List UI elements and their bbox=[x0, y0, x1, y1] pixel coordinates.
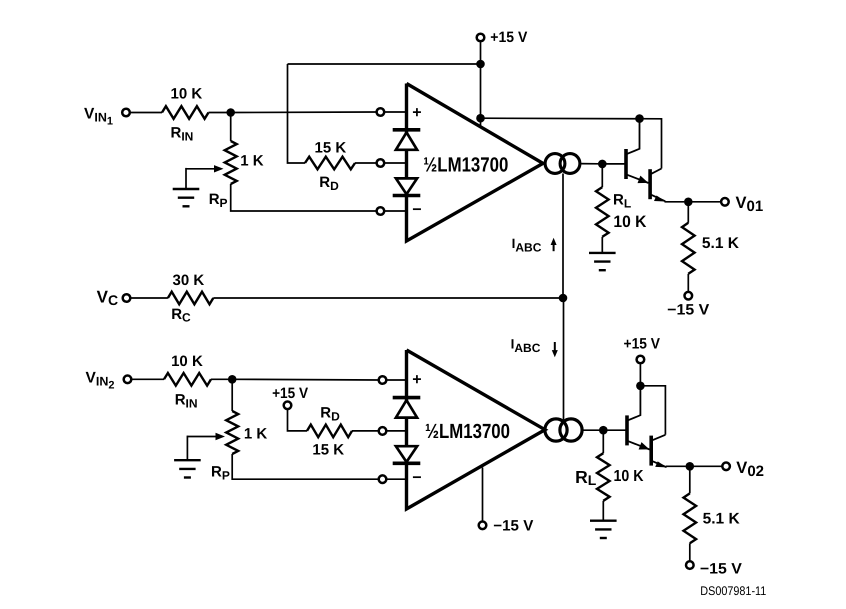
svg-text:−: − bbox=[412, 202, 421, 219]
wire node C1 to R5 ch1 bbox=[687, 202, 689, 223]
svg-text:10 K: 10 K bbox=[171, 86, 203, 103]
resistor 5.1K ch1 bbox=[682, 223, 695, 274]
resistor RD2 15K bbox=[307, 425, 352, 438]
input terminal VIN1 bbox=[122, 109, 130, 117]
potentiometer RP2 1K bbox=[226, 411, 238, 454]
svg-text:15 K: 15 K bbox=[312, 442, 344, 459]
arrow IABC up bbox=[553, 243, 555, 251]
node B1 junction bbox=[598, 160, 607, 169]
wire node C1 to V01 bbox=[688, 201, 721, 203]
wire node C2 to V02 bbox=[690, 465, 723, 467]
ground RP1 bbox=[173, 188, 200, 190]
linearizing diodes D1 D2 ch1 bbox=[393, 128, 421, 132]
terminal V02 bbox=[722, 463, 730, 471]
linearizing diodes D3 D4 ch2 bbox=[393, 396, 421, 400]
wire - terminal to U2 bbox=[386, 478, 406, 480]
node B2 junction bbox=[599, 426, 608, 435]
wire diode bias terminal to U2 bbox=[386, 430, 406, 432]
wire + terminal to U1 bbox=[384, 111, 406, 113]
wire RL2 to ground bbox=[602, 501, 604, 521]
resistor RL2 10K bbox=[597, 453, 610, 501]
wire mirror to node B1 bbox=[580, 163, 599, 165]
node VC junction bbox=[559, 294, 568, 303]
node C1 junction bbox=[684, 198, 693, 207]
svg-text:1 K: 1 K bbox=[244, 426, 268, 443]
wire node B1 to RL1 bbox=[601, 164, 603, 187]
svg-text:+15 V: +15 V bbox=[624, 336, 661, 353]
svg-text:DS007981-11: DS007981-11 bbox=[700, 584, 766, 598]
wire +15V down bbox=[480, 41, 482, 64]
potentiometer RP1 1K bbox=[225, 141, 237, 184]
resistor RC 30K bbox=[168, 292, 213, 305]
ground RL1 bbox=[589, 252, 616, 254]
wire collector rail ch2 bbox=[640, 386, 665, 435]
svg-text:+: + bbox=[412, 105, 421, 122]
wire node B2 to RL2 bbox=[602, 430, 604, 453]
ground RL2 bbox=[590, 520, 617, 522]
wire Q4 emitter to node C2 bbox=[666, 465, 686, 467]
wire diode bias terminal to U1 bbox=[384, 162, 406, 164]
wire IABC node to mirror2 bbox=[563, 298, 565, 424]
wire node C2 to R5 ch2 bbox=[689, 466, 691, 493]
wire +15V rail left bbox=[288, 63, 481, 65]
svg-text:10 K: 10 K bbox=[614, 468, 644, 485]
node V+ collector rail bbox=[476, 114, 485, 123]
svg-text:5.1 K: 5.1 K bbox=[702, 235, 740, 252]
current mirror U2 output bbox=[545, 419, 567, 441]
wire RC to IABC node bbox=[213, 297, 563, 299]
wiper wire to ground RP2 bbox=[186, 436, 188, 461]
ground RP2 bbox=[174, 459, 201, 461]
terminal + input U2 bbox=[379, 376, 387, 384]
svg-text:10 K: 10 K bbox=[613, 213, 646, 231]
wire collector rail ch1 bbox=[481, 118, 662, 168]
terminal - input U2 bbox=[379, 475, 387, 483]
terminal +15V bias ch2 bbox=[284, 402, 292, 410]
terminal V01 bbox=[721, 198, 729, 206]
wire RL1 to ground bbox=[601, 237, 603, 253]
terminal diode bias U1 bbox=[377, 159, 385, 167]
transistor Q1 ch1 bbox=[624, 149, 628, 179]
node +15V rail junction bbox=[476, 60, 485, 69]
wire node B2 to Q3 base bbox=[603, 429, 625, 431]
wire - terminal to U1 bbox=[384, 210, 406, 212]
svg-text:+15 V: +15 V bbox=[490, 29, 527, 46]
svg-text:30 K: 30 K bbox=[173, 272, 205, 289]
wire RD1 to diode bias terminal bbox=[355, 162, 377, 164]
terminal -15V out ch2 bbox=[686, 561, 694, 569]
wire VIN1 to RIN1 bbox=[130, 112, 162, 114]
transistor Q4 ch2 bbox=[649, 436, 653, 466]
wire node A1 down to RP1 bbox=[230, 113, 232, 142]
resistor 5.1K ch2 bbox=[684, 493, 697, 543]
wiper wire to ground RP1 bbox=[185, 168, 187, 189]
wire + terminal to U2 bbox=[386, 379, 406, 381]
node +15V ch2 junction bbox=[636, 382, 645, 391]
svg-text:½LM13700: ½LM13700 bbox=[425, 420, 510, 443]
resistor RIN1 10K bbox=[162, 106, 209, 119]
wire RP1 bottom to - input bbox=[231, 184, 377, 211]
svg-text:10 K: 10 K bbox=[171, 353, 203, 370]
svg-text:−: − bbox=[412, 470, 421, 487]
svg-text:½LM13700: ½LM13700 bbox=[423, 154, 508, 177]
input terminal VIN2 bbox=[124, 376, 132, 384]
wire node A2 down to RP2 bbox=[231, 379, 233, 411]
wire +15V down ch2 bbox=[639, 363, 641, 386]
wire node A2 to + input U2 bbox=[232, 378, 379, 381]
wire -15V to U2 V- pin bbox=[482, 468, 484, 522]
op-amp U1 half LM13700 bbox=[407, 84, 544, 242]
arrow IABC down bbox=[554, 342, 556, 352]
terminal -15V ch1 bbox=[685, 292, 693, 300]
svg-text:15 K: 15 K bbox=[315, 140, 347, 157]
terminal +15V supply ch1 bbox=[477, 34, 485, 42]
resistor RL1 10K bbox=[596, 187, 609, 237]
wire +15V down to U1 V+ pin bbox=[480, 64, 482, 127]
wiper arrow RP1 bbox=[186, 168, 216, 170]
op-amp U2 half LM13700 bbox=[407, 350, 546, 509]
wire +15V to RD2 bbox=[288, 409, 308, 431]
svg-text:−15 V: −15 V bbox=[667, 302, 709, 319]
terminal -15V supply ch2 bbox=[479, 522, 487, 530]
svg-text:1 K: 1 K bbox=[240, 153, 264, 170]
wire mirror2 to node B2 bbox=[582, 429, 600, 431]
svg-text:V01: V01 bbox=[736, 194, 764, 215]
node A1 junction bbox=[226, 108, 235, 117]
svg-text:−15 V: −15 V bbox=[700, 561, 742, 578]
wire node A1 to + input bbox=[231, 111, 377, 114]
transistor Q2 ch1 bbox=[648, 169, 652, 199]
wire RP2 bottom to - input U2 bbox=[232, 454, 379, 479]
terminal VC bbox=[123, 294, 131, 302]
wire IABC mirror1 to VC node bbox=[562, 174, 564, 299]
wire Q2 emitter to node C1 bbox=[665, 201, 685, 203]
wire 5.1K to -15V ch1 bbox=[687, 274, 689, 292]
wire 5.1K to -15V ch2 bbox=[689, 543, 691, 561]
terminal - input U1 bbox=[377, 207, 385, 215]
svg-text:V02: V02 bbox=[736, 459, 764, 480]
svg-text:+: + bbox=[412, 371, 421, 388]
wire RD2 to diode bias terminal U2 bbox=[352, 430, 379, 432]
transistor Q3 ch2 bbox=[625, 415, 629, 445]
node C2 junction bbox=[686, 462, 695, 471]
svg-text:5.1 K: 5.1 K bbox=[703, 511, 741, 528]
wire VIN2 to RIN2 bbox=[131, 378, 164, 380]
node Q1 collector junction bbox=[635, 114, 644, 123]
wire RIN1 to node A1 bbox=[209, 112, 228, 114]
resistor RD1 15K bbox=[305, 157, 355, 170]
terminal + input U1 bbox=[377, 108, 385, 116]
wire RIN2 to node A2 bbox=[211, 378, 228, 380]
node A2 junction bbox=[228, 375, 237, 384]
resistor RIN2 10K bbox=[164, 373, 211, 386]
terminal diode bias U2 bbox=[379, 427, 387, 435]
wire node B1 to Q1 base bbox=[602, 163, 624, 165]
svg-text:+15 V: +15 V bbox=[272, 385, 308, 402]
current mirror U1 output bbox=[545, 154, 565, 174]
wiper arrow RP2 bbox=[187, 436, 217, 438]
svg-text:−15 V: −15 V bbox=[493, 518, 533, 535]
terminal +15V out ch2 bbox=[637, 356, 645, 364]
wire VC to RC bbox=[130, 297, 168, 299]
wire +15V rail to RD1 bbox=[288, 64, 306, 163]
